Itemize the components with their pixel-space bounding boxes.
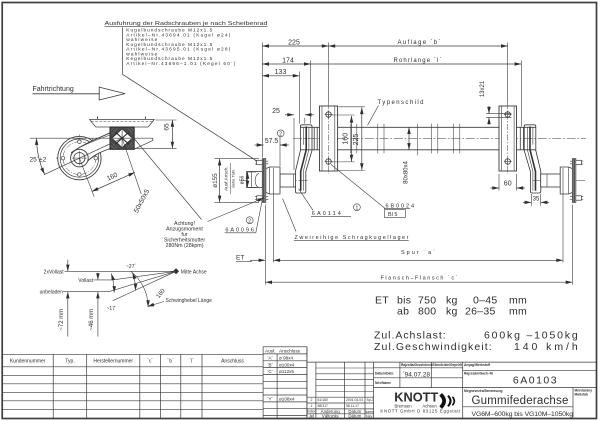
extension line right plate center (507, 43, 509, 104)
dim 225 (top) (262, 45, 328, 47)
dim 133 (262, 75, 299, 77)
horizontal reference line (30, 137, 110, 139)
svg-text:Sp.J: Sp.J (367, 398, 374, 402)
svg-text:´94.07.28: ´94.07.28 (403, 372, 431, 379)
tube break marks (351, 124, 460, 156)
svg-text:Maßstab: Maßstab (575, 392, 588, 396)
svg-text:Vollast: Vollast (78, 278, 93, 284)
left swing arm (front view) (295, 125, 312, 193)
dim 160 (plate bolts, vertical) (351, 116, 353, 162)
svg-text:siehe Tabl.: siehe Tabl. (230, 169, 235, 188)
dim o155 (left flange) (215, 158, 260, 160)
svg-text:Artikel–Nr.43696–1.01 (Kegel 6: Artikel–Nr.43696–1.01 (Kegel 60´) (126, 61, 235, 67)
bottom extension lines (264, 205, 266, 285)
title block (399, 362, 401, 388)
dim 60 (right plate width) (498, 174, 500, 191)
svg-text:60: 60 (504, 181, 512, 188)
svg-text:Anyag/Werkstoff: Anyag/Werkstoff (464, 363, 491, 367)
right wheel bolt top (570, 160, 583, 164)
svg-text:~72 mm: ~72 mm (59, 309, 65, 331)
svg-text:ø112x5: ø112x5 (279, 369, 294, 374)
label 6A0114 with circled 1 (299, 189, 313, 211)
svg-text:unbeladen: unbeladen (40, 290, 64, 296)
svg-text:Rohrlange ´l´: Rohrlange ´l´ (394, 58, 442, 64)
svg-text:Dátum: Dátum (348, 414, 361, 419)
svg-text:65: 65 (163, 123, 170, 131)
svg-text:~46 mm: ~46 mm (89, 309, 95, 331)
svg-text:Bremsen: Bremsen (395, 403, 413, 408)
tube end caps (313, 127, 315, 150)
svg-text:2: 2 (310, 398, 312, 402)
right wheel flange plate (572, 159, 575, 203)
svg-text:140 km/h: 140 km/h (514, 341, 578, 353)
svg-text:133: 133 (275, 69, 287, 76)
Ausf mini table (263, 347, 307, 419)
25 deg dimension arc (37, 138, 45, 174)
tube hidden lines behind plates (dashed) (320, 127, 517, 150)
circled 2 (upper) (277, 130, 284, 137)
svg-text:280Nm (28kpm): 280Nm (28kpm) (166, 243, 204, 249)
dim 35 (arm offset) (530, 194, 532, 206)
left mounting plate (320, 106, 338, 171)
svg-text:Achsen: Achsen (422, 403, 437, 408)
left plate bolt bottom (325, 158, 333, 166)
svg-text:25: 25 (272, 108, 280, 115)
left hub body (266, 167, 280, 194)
svg-text:Név: Név (366, 415, 373, 419)
dim o56 (drum pilot) (248, 171, 257, 173)
label Zweireihige Schragkugellager (283, 199, 297, 232)
svg-text:ø56: ø56 (240, 175, 246, 184)
svg-text:Typ.: Typ. (65, 359, 74, 365)
svg-text:Anschluss: Anschluss (279, 348, 301, 353)
svg-text:¨C¨: ¨C¨ (267, 369, 274, 374)
svg-text:98/317: 98/317 (318, 404, 328, 408)
svg-text:98.11.17: 98.11.17 (346, 404, 359, 408)
svg-text:Név/Name: Név/Name (375, 381, 391, 385)
hub crosshair centerlines (56, 157, 103, 159)
svg-text:VG6M–600kg bis VG10M–1050kg: VG6M–600kg bis VG10M–1050kg (472, 411, 574, 418)
dim Flansch-Flansch 'c' (265, 281, 572, 283)
svg-text:ET: ET (236, 254, 244, 261)
extension line tube end x310.7 (310, 61, 312, 124)
svg-text:Bl 5: Bl 5 (388, 212, 397, 218)
svg-text:25´±2: 25´±2 (30, 156, 47, 163)
hub boss (71, 149, 89, 167)
svg-text:35: 35 (533, 197, 540, 203)
arm axis line (25 deg) (44, 138, 122, 175)
svg-text:Ellenőrizte/Geprüft: Ellenőrizte/Geprüft (432, 363, 462, 367)
svg-text:¨l¨: ¨l¨ (189, 359, 194, 365)
svg-text:57.5: 57.5 (265, 138, 279, 145)
inner 50x50 rubber tube diamond (112, 129, 133, 148)
svg-text:~17´: ~17´ (107, 306, 117, 312)
svg-text:Fahrtrichtung: Fahrtrichtung (33, 86, 74, 93)
svg-text:Jel: Jel (309, 414, 315, 419)
right wheel end: spindle (541, 174, 561, 187)
bolt circle (dash-dot) (63, 142, 96, 175)
svg-text:ø 98x4: ø 98x4 (279, 356, 293, 361)
svg-text:¨Y¨: ¨Y¨ (267, 397, 274, 402)
right hub body (560, 167, 572, 194)
svg-text:Name: Name (365, 410, 375, 414)
svg-text:KNOTT: KNOTT (394, 391, 438, 405)
main customer table (2, 353, 263, 355)
rubber cross inside diamond (115, 132, 128, 144)
svg-text:Typenschild: Typenschild (378, 100, 424, 106)
svg-text:Flansch–Flansch ´c´: Flansch–Flansch ´c´ (381, 275, 458, 281)
left plate bolt top (325, 111, 333, 119)
right wheel bolt bottom (570, 196, 583, 200)
svg-text:2001.04.04: 2001.04.04 (346, 398, 363, 402)
svg-text:Zul.Geschwindigkeit:: Zul.Geschwindigkeit: (374, 341, 492, 353)
wheel centerline left (241, 180, 309, 182)
svg-text:Spur ´a´: Spur ´a´ (401, 250, 435, 256)
svg-text:Változás: Változás (322, 414, 340, 419)
svg-text:160: 160 (343, 133, 350, 145)
node Mitte Achse (173, 268, 179, 274)
svg-text:2: 2 (248, 218, 251, 224)
svg-text:13x21: 13x21 (480, 80, 486, 97)
svg-text:Rajzszám/Sach–Nr: Rajzszám/Sach–Nr (464, 371, 494, 375)
main axle centerline (293, 138, 586, 140)
Ausf table texts (265, 348, 301, 401)
extension line left flange face (long) (261, 43, 263, 158)
svg-text:Kundennummer: Kundennummer (10, 359, 46, 365)
svg-text:¨b¨: ¨b¨ (168, 359, 174, 365)
extension line tube right end (520, 61, 522, 127)
right plate centerline (507, 103, 509, 174)
dim Spur 'a' (273, 259, 563, 261)
svg-text:2: 2 (279, 132, 282, 138)
svg-text:Auflage ´b´: Auflage ´b´ (398, 40, 441, 46)
svg-text:1: 1 (356, 205, 359, 211)
dim Auflage 'b' (329, 45, 508, 47)
svg-text:ø100x4: ø100x4 (279, 362, 295, 367)
svg-text:1: 1 (310, 404, 312, 408)
leader Achtung to axle nut (208, 198, 265, 222)
svg-text:Ausf.: Ausf. (265, 348, 275, 353)
angle arc ~17 (111, 274, 114, 293)
svg-text:Zul.Achslast:: Zul.Achslast: (374, 329, 446, 341)
svg-text:6A0103: 6A0103 (513, 374, 558, 386)
U-bolt clamp bracket (side view) (89, 116, 154, 149)
table header texts (10, 359, 244, 365)
wheel centerline right (533, 180, 586, 182)
dim ~72 mm (67, 260, 69, 272)
svg-text:Megnevezés/Benennung: Megnevezés/Benennung (464, 389, 502, 393)
svg-text:Mitte Achse: Mitte Achse (181, 270, 207, 276)
svg-text:80x80x4: 80x80x4 (403, 160, 409, 183)
dim 65 (156, 119, 177, 121)
svg-text:¨A¨: ¨A¨ (267, 356, 274, 361)
swing arm (side view) (72, 132, 120, 165)
dim 80x80x4 (408, 127, 410, 150)
svg-text:ø155: ø155 (212, 173, 219, 188)
extension line plate center top (328, 43, 330, 104)
right mounting plate (499, 106, 517, 171)
right plate bolt bottom (504, 158, 512, 166)
label 6B0024 / Bl 5 (331, 165, 385, 209)
left wheel flange plate (262, 159, 265, 203)
swing radius arc (131, 271, 148, 307)
svg-text:174: 174 (282, 57, 294, 64)
dim Rohrlange 'l' (311, 63, 522, 65)
revision table texts (310, 398, 373, 408)
max swing line (113, 271, 176, 300)
right plate bolt top (504, 111, 512, 119)
dim 25 (arm to plate) (293, 118, 295, 170)
svg-text:Ausfuhrung der Radschrauben je: Ausfuhrung der Radschrauben je nach Sche… (105, 21, 268, 27)
svg-text:Schwinghebel Länge: Schwinghebel Länge (166, 298, 213, 304)
dim 160 line (92, 172, 135, 191)
dim 160 (arm length) extension lines (79, 158, 94, 197)
svg-text:Herstellernummer: Herstellernummer (93, 359, 133, 365)
hub flange circles (58, 136, 101, 179)
svg-text:¨B¨: ¨B¨ (267, 362, 274, 367)
svg-text:KNOTT GmbH D 83125 Eggstatt: KNOTT GmbH D 83125 Eggstatt (380, 409, 461, 414)
title block texts (375, 363, 592, 397)
label 6A0096 with circled 2 (246, 217, 253, 224)
dim ~46 mm (97, 273, 99, 280)
angle arc ~27 (132, 273, 135, 291)
svg-text:2xVollast: 2xVollast (44, 269, 65, 275)
wheel bolt holes (78, 140, 82, 144)
note Achtung Anzugsmoment (164, 221, 205, 249)
note: Radschrauben text block (105, 21, 268, 67)
svg-text:Anschluss: Anschluss (221, 359, 244, 365)
right swing arm (front view) (524, 125, 541, 193)
square tube 80x80x4 (front view) (301, 127, 536, 150)
left plate centerline (328, 103, 330, 174)
leader square tube to Achtung note (135, 139, 202, 220)
svg-text:Dátum/Date: Dátum/Date (375, 372, 393, 376)
svg-text:Rajzolta/Gezeichnet: Rajzolta/Gezeichnet (401, 363, 433, 367)
left brake drum pilot (247, 172, 263, 188)
svg-text:225: 225 (353, 134, 360, 146)
revision table (307, 361, 597, 363)
dim 225 (plate height, vertical) (361, 107, 363, 170)
Fahrtrichtung arrow (99, 87, 125, 100)
svg-text:¨c¨: ¨c¨ (147, 359, 153, 365)
svg-text:Ausf.Ansch.: Ausf.Ansch. (223, 166, 228, 191)
svg-text:ø108x4: ø108x4 (279, 397, 295, 402)
left wheel end: spindle (280, 174, 296, 187)
dim 57.5 (279, 132, 281, 166)
KNOTT logo (380, 391, 461, 414)
dim 174 (262, 63, 310, 65)
note bracket line (122, 28, 124, 75)
svg-text:61/160: 61/160 (318, 398, 328, 402)
svg-text:~27´: ~27´ (126, 264, 136, 270)
left wheel bolt top (255, 160, 268, 164)
extension line arm face x299.5 (299, 72, 301, 124)
leader from note to wheel bolt (123, 74, 257, 161)
square axle tube 80x80 (side view, hatched dark) (110, 127, 134, 149)
svg-text:Gummifederachse: Gummifederachse (472, 395, 570, 407)
svg-text:225: 225 (288, 39, 300, 46)
left wheel bolt bottom (255, 196, 268, 200)
